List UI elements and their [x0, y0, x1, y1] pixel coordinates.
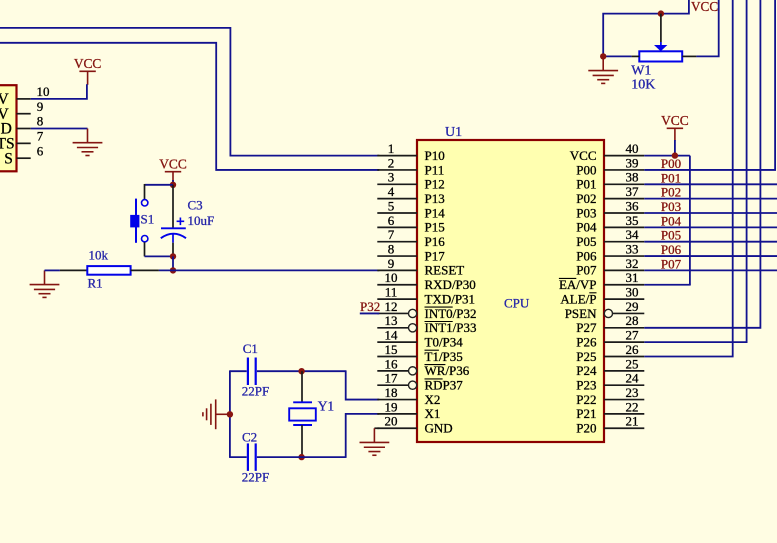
capacitor C3 curved plate — [161, 234, 186, 239]
capacitor C2 left lead — [230, 456, 247, 458]
svg-text:40: 40 — [626, 141, 639, 156]
wire net P06 — [644, 255, 777, 257]
connector pin 9 stub — [17, 113, 31, 115]
svg-text:24: 24 — [626, 371, 640, 386]
svg-text:P02: P02 — [576, 191, 596, 206]
svg-text:P06: P06 — [576, 248, 597, 263]
svg-text:23: 23 — [626, 385, 639, 400]
wire to reset net — [172, 256, 174, 270]
wire connector pin 8 to ground — [31, 128, 88, 130]
wire C1 to crystal node — [257, 370, 346, 372]
U1 pin 19 stub — [377, 413, 417, 415]
svg-text:6: 6 — [388, 213, 395, 228]
U1 pin 15 stub — [377, 356, 417, 358]
svg-text:10: 10 — [385, 270, 398, 285]
U1 pin 31 stub — [604, 284, 644, 286]
svg-text:10: 10 — [37, 84, 50, 99]
svg-text:C2: C2 — [242, 430, 257, 445]
svg-text:WR/P36: WR/P36 — [425, 363, 470, 378]
svg-text:C1: C1 — [243, 341, 258, 356]
svg-text:38: 38 — [626, 170, 639, 185]
wire VCC stem — [674, 140, 676, 156]
svg-text:P00: P00 — [576, 162, 596, 177]
junction crystal bottom — [298, 454, 304, 460]
U1 pin 4 stub — [377, 198, 417, 200]
U1 pin 17 stub — [377, 384, 409, 386]
svg-text:VCC: VCC — [74, 56, 102, 71]
svg-text:P06: P06 — [661, 242, 682, 257]
svg-text:EA/VP: EA/VP — [559, 277, 597, 292]
U1 pin 16 stub — [377, 370, 409, 372]
potentiometer W1 wiper arrow — [654, 45, 667, 51]
svg-text:26: 26 — [626, 342, 640, 357]
svg-text:P05: P05 — [661, 228, 681, 243]
U1 pin 18 stub — [377, 399, 417, 401]
ground at U1 pin 20 — [360, 428, 390, 455]
wire stub net P32 — [360, 312, 380, 314]
svg-text:P07: P07 — [576, 263, 597, 278]
crystal Y1 bottom plate — [293, 424, 312, 426]
svg-text:C3: C3 — [188, 198, 203, 213]
U1 pin 40 stub — [604, 155, 644, 157]
svg-text:P24: P24 — [576, 363, 597, 378]
U1 pin 7 stub — [377, 241, 417, 243]
crystal Y1 bottom lead — [301, 425, 303, 457]
capacitor C3 top plate — [161, 227, 186, 229]
power VCC symbol above S1/C3 — [165, 172, 181, 185]
wire EA to VCC vertical — [689, 156, 691, 285]
svg-text:S1: S1 — [141, 212, 155, 227]
capacitor C3 bottom lead — [172, 243, 174, 257]
svg-text:P21: P21 — [576, 406, 596, 421]
svg-text:37: 37 — [626, 184, 640, 199]
svg-text:GND: GND — [425, 421, 453, 436]
svg-text:P03: P03 — [576, 205, 596, 220]
svg-text:VCC: VCC — [691, 0, 718, 14]
svg-text:P01: P01 — [661, 170, 681, 185]
svg-text:P04: P04 — [576, 220, 597, 235]
svg-text:T1/P35: T1/P35 — [425, 349, 463, 364]
op CPU U1 body — [417, 140, 604, 442]
svg-text:22: 22 — [626, 399, 639, 414]
svg-text:35: 35 — [626, 213, 639, 228]
capacitor C3 bottom lead blue — [172, 234, 174, 243]
junction on reset net — [170, 267, 176, 273]
svg-text:5: 5 — [388, 198, 395, 213]
wire net P01 — [644, 183, 777, 185]
svg-text:14: 14 — [385, 328, 399, 343]
wire C2 to crystal node — [257, 456, 346, 458]
svg-text:T0/P34: T0/P34 — [425, 334, 464, 349]
pin S1 top — [144, 184, 146, 200]
wire net P04 — [644, 226, 777, 228]
svg-text:27: 27 — [626, 328, 640, 343]
switch S1 actuator bar — [135, 199, 137, 243]
U1 pin 37 stub — [604, 198, 644, 200]
svg-text:12: 12 — [385, 299, 398, 314]
svg-text:36: 36 — [626, 198, 640, 213]
U1 pin 20 stub — [377, 427, 417, 429]
U1 pin 29 stub — [612, 312, 644, 314]
svg-text:U1: U1 — [445, 125, 462, 140]
svg-text:P22: P22 — [576, 392, 596, 407]
capacitor C2 plates — [248, 443, 256, 471]
crystal Y1 top lead — [301, 371, 303, 402]
ground below W1 — [588, 56, 618, 83]
svg-text:39: 39 — [626, 155, 639, 170]
svg-text:33: 33 — [626, 241, 639, 256]
svg-text:INT0/P32: INT0/P32 — [425, 306, 477, 321]
svg-text:VCC: VCC — [570, 148, 597, 163]
U1 pin 32 stub — [604, 269, 644, 271]
svg-text:P15: P15 — [425, 220, 445, 235]
resistor R1 left pin — [60, 269, 87, 271]
U1 pin 9 stub — [377, 269, 417, 271]
svg-text:RESET: RESET — [425, 263, 465, 278]
wire crystal bottom to U1 pin 19 X1 — [346, 414, 380, 458]
svg-text:29: 29 — [626, 299, 639, 314]
svg-text:11: 11 — [385, 285, 398, 300]
svg-text:X2: X2 — [425, 392, 441, 407]
svg-text:10K: 10K — [631, 78, 655, 93]
connector J1 body (cut off at left edge) — [0, 85, 17, 171]
junction crystal top — [298, 368, 304, 374]
junction at VCC/S1/C3 — [170, 182, 176, 188]
crystal Y1 body — [289, 408, 316, 420]
svg-text:P17: P17 — [425, 248, 446, 263]
svg-text:W1: W1 — [631, 64, 651, 79]
connector pin 10 stub — [17, 98, 31, 100]
resistor R1 right pin — [131, 269, 159, 271]
svg-text:VCC: VCC — [661, 113, 689, 128]
U1 pin 6 stub — [377, 226, 417, 228]
wire net P05 — [644, 241, 777, 243]
svg-text:P20: P20 — [576, 421, 596, 436]
svg-text:10uF: 10uF — [188, 213, 215, 228]
svg-text:P01: P01 — [576, 177, 596, 192]
svg-text:15: 15 — [385, 342, 398, 357]
svg-text:VCC: VCC — [159, 157, 187, 172]
switch S1 bottom contact — [142, 236, 148, 242]
U1 pin 12 bubble — [409, 309, 417, 317]
svg-text:P00: P00 — [661, 156, 681, 171]
potentiometer W1 right pin — [682, 55, 696, 57]
wire U1 pin 40 to VCC/EA — [644, 155, 690, 157]
connector pin 8 stub — [17, 128, 31, 130]
wire net P03 — [644, 212, 777, 214]
svg-text:13: 13 — [385, 313, 398, 328]
U1 pin 36 stub — [604, 212, 644, 214]
U1 pin 27 stub — [604, 341, 644, 343]
wire net P00 — [644, 0, 775, 170]
svg-text:8: 8 — [37, 114, 44, 129]
U1 pin 13 bubble — [409, 324, 417, 332]
U1 pin 26 stub — [604, 356, 644, 358]
svg-text:32: 32 — [626, 256, 639, 271]
potentiometer W1 left pin — [632, 55, 640, 57]
svg-text:31: 31 — [626, 270, 639, 285]
U1 pin 38 stub — [604, 183, 644, 185]
U1 pin 25 stub — [604, 370, 644, 372]
svg-text:18: 18 — [385, 385, 398, 400]
svg-text:20: 20 — [385, 414, 398, 429]
ground at connector pin 8 — [73, 129, 103, 156]
svg-text:P23: P23 — [576, 378, 596, 393]
svg-text:P16: P16 — [425, 234, 446, 249]
svg-text:S: S — [4, 150, 13, 167]
svg-text:P03: P03 — [661, 199, 681, 214]
U1 pin 21 stub — [604, 427, 644, 429]
wire left branch C1-C2 — [229, 370, 231, 458]
wire net P27 to top — [644, 0, 760, 328]
capacitor C1 plates — [248, 358, 256, 386]
wire net P07 — [644, 269, 777, 271]
svg-text:22PF: 22PF — [242, 470, 269, 485]
svg-text:P13: P13 — [425, 191, 445, 206]
svg-text:Y1: Y1 — [318, 399, 335, 414]
U1 pin 16 bubble — [409, 367, 417, 375]
U1 pin 8 stub — [377, 255, 417, 257]
U1 pin 11 stub — [377, 298, 417, 300]
U1 pin 12 stub — [377, 312, 409, 314]
junction S1/C3 bottom — [170, 253, 176, 259]
svg-text:19: 19 — [385, 399, 398, 414]
svg-text:R1: R1 — [88, 276, 103, 291]
U1 pin 17 bubble — [409, 381, 417, 389]
svg-text:P02: P02 — [661, 185, 681, 200]
U1 pin 5 stub — [377, 212, 417, 214]
svg-text:TXD/P31: TXD/P31 — [425, 291, 476, 306]
svg-text:28: 28 — [626, 313, 639, 328]
svg-text:P11: P11 — [425, 162, 445, 177]
svg-text:P04: P04 — [661, 213, 682, 228]
svg-text:34: 34 — [626, 227, 640, 242]
svg-text:9: 9 — [37, 99, 44, 114]
U1 pin 14 stub — [377, 341, 417, 343]
U1 pin 35 stub — [604, 226, 644, 228]
potentiometer W1 body — [639, 51, 682, 61]
capacitor C3 top lead — [172, 185, 174, 229]
svg-text:8: 8 — [388, 241, 395, 256]
wire W1 right to VCC — [696, 0, 718, 56]
wire U1 pin 31 EA — [644, 284, 690, 286]
wire junction to S1 top — [145, 184, 174, 186]
pin S1 bottom — [144, 242, 146, 256]
svg-text:P05: P05 — [576, 234, 596, 249]
wire connector pin 10 to VCC — [31, 84, 87, 99]
U1 pin 2 stub — [377, 169, 417, 171]
U1 pin 39 stub — [604, 169, 644, 171]
U1 pin 29 bubble — [604, 309, 612, 317]
U1 pin 13 stub — [377, 327, 409, 329]
wire ground to R1 — [45, 269, 60, 271]
U1 pin 34 stub — [604, 241, 644, 243]
svg-text:7: 7 — [37, 128, 44, 143]
svg-text:6: 6 — [37, 143, 44, 158]
U1 pin 22 stub — [604, 413, 644, 415]
U1 pin 33 stub — [604, 255, 644, 257]
potentiometer W1 wiper stem blue — [660, 42, 662, 46]
junction VCC pin40 — [672, 152, 678, 158]
svg-text:10k: 10k — [89, 248, 109, 263]
connector pin 7 stub — [17, 142, 31, 144]
junction W1 ground — [600, 53, 606, 59]
svg-text:P32: P32 — [360, 299, 380, 314]
capacitor C3 polarity plus — [177, 218, 185, 226]
svg-text:RDP37: RDP37 — [425, 378, 464, 393]
wire W1 top net — [603, 0, 689, 56]
crystal Y1 top plate — [293, 401, 312, 403]
wire U1 pin 20 to ground — [374, 427, 379, 429]
svg-text:P26: P26 — [576, 334, 597, 349]
resistor R1 body — [87, 266, 130, 275]
U1 pin 3 stub — [377, 183, 417, 185]
U1 pin 28 stub — [604, 327, 644, 329]
svg-text:25: 25 — [626, 356, 639, 371]
connector pin 6 stub — [17, 157, 31, 159]
power VCC symbol above connector — [79, 71, 95, 85]
svg-text:7: 7 — [388, 227, 395, 242]
junction W1 wiper — [658, 10, 664, 16]
svg-text:ALE/P: ALE/P — [560, 291, 596, 306]
svg-text:1: 1 — [388, 141, 395, 156]
svg-text:P14: P14 — [425, 205, 446, 220]
svg-text:P25: P25 — [576, 349, 596, 364]
wire net P02 — [644, 198, 777, 200]
svg-text:22PF: 22PF — [242, 384, 269, 399]
wire crystal top to U1 pin 18 X2 — [346, 370, 380, 399]
U1 pin 10 stub — [377, 284, 417, 286]
svg-text:21: 21 — [626, 414, 639, 429]
ground rotated at crystal — [203, 399, 230, 429]
wire VCC to reset net — [172, 180, 174, 185]
svg-text:30: 30 — [626, 285, 639, 300]
power VCC symbol above pin 40 — [667, 128, 683, 141]
U1 pin 23 stub — [604, 399, 644, 401]
svg-text:CPU: CPU — [504, 296, 530, 311]
svg-text:4: 4 — [388, 184, 395, 199]
wire net P10 from left edge to U1 pin 1 — [0, 28, 379, 156]
U1 pin 30 stub — [604, 298, 644, 300]
svg-text:9: 9 — [388, 256, 395, 271]
svg-text:2: 2 — [388, 155, 395, 170]
wire W1 left to ground — [603, 55, 631, 57]
svg-text:P07: P07 — [661, 256, 682, 271]
svg-text:P12: P12 — [425, 177, 445, 192]
wire S1 bottom to junction — [145, 255, 174, 257]
wire reset net to U1 pin 9 — [159, 269, 379, 271]
ground left of R1 — [30, 270, 60, 297]
svg-text:16: 16 — [385, 356, 399, 371]
wire net P25 to top — [644, 0, 732, 357]
svg-text:P10: P10 — [425, 148, 445, 163]
potentiometer W1 wiper stem — [660, 14, 662, 42]
svg-text:RXD/P30: RXD/P30 — [425, 277, 476, 292]
svg-text:P27: P27 — [576, 320, 597, 335]
U1 pin 1 stub — [377, 155, 417, 157]
svg-text:INT1/P33: INT1/P33 — [425, 320, 477, 335]
svg-text:X1: X1 — [425, 406, 441, 421]
switch S1 button — [130, 215, 139, 228]
wire net P11 from left edge to U1 pin 2 — [0, 43, 379, 170]
svg-text:PSEN: PSEN — [565, 306, 597, 321]
svg-text:17: 17 — [385, 371, 399, 386]
svg-text:3: 3 — [388, 170, 395, 185]
U1 pin 24 stub — [604, 384, 644, 386]
capacitor C1 left lead — [230, 370, 247, 372]
junction ground tap — [227, 411, 233, 417]
wire net P26 to top — [644, 0, 746, 342]
switch S1 top contact — [142, 200, 148, 206]
